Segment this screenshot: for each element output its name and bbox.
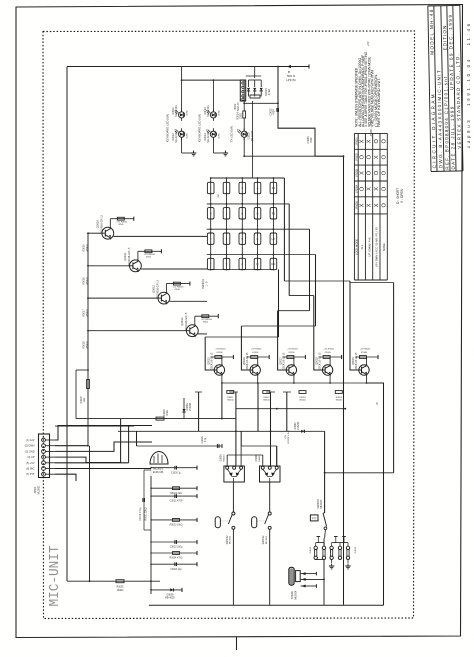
- svg-text:KEYBOARD LED (UR): KEYBOARD LED (UR): [166, 114, 170, 143]
- svg-text:220Ω: 220Ω: [240, 113, 243, 119]
- svg-text:JP3005: JP3005: [355, 201, 358, 210]
- svg-text:RB-402D: RB-402D: [165, 597, 175, 599]
- svg-text:8000Ω: 8000Ω: [263, 400, 270, 402]
- svg-text:R3026: R3026: [117, 587, 124, 589]
- svg-text:D3015: D3015: [248, 132, 251, 140]
- svg-text:EDITION: EDITION: [442, 26, 447, 51]
- svg-text:PTT: PTT: [312, 519, 317, 521]
- svg-text:2SC4116-GR L5: 2SC4116-GR L5: [283, 352, 285, 370]
- svg-text:UP / DWN / ACC / D-NR / P1 / P: UP / DWN / ACC / D-NR / P1 / P2: [375, 226, 379, 267]
- svg-text:C3003: C3003: [307, 136, 310, 144]
- svg-text:(5) +5V: (5) +5V: [26, 462, 35, 465]
- svg-text:SW: SW: [218, 194, 220, 197]
- svg-text:A: A: [257, 186, 259, 190]
- svg-text:(UR): (UR): [218, 110, 220, 115]
- svg-text:Q3011: Q3011: [123, 252, 127, 260]
- svg-text:MU0901: MU0901: [38, 485, 41, 495]
- svg-text:C3019 0.01μ: C3019 0.01μ: [140, 507, 142, 521]
- svg-text:R3023 10kΩ: R3023 10kΩ: [170, 525, 183, 527]
- svg-text:2SC4116-GR L5: 2SC4116-GR L5: [211, 352, 213, 370]
- svg-text:(1) 12V: (1) 12V: [26, 439, 35, 442]
- svg-text:47kΩ: 47kΩ: [146, 257, 152, 259]
- svg-text:470kΩ: 470kΩ: [86, 244, 89, 251]
- svg-text:D3012: D3012: [355, 546, 357, 553]
- svg-text:R3053: R3053: [299, 397, 306, 399]
- svg-text:MU0902: MU0902: [266, 535, 268, 544]
- svg-text:MU0903: MU0903: [321, 499, 323, 508]
- svg-text:X: X: [367, 203, 373, 207]
- svg-text:2SC4116-GR L5: 2SC4116-GR L5: [320, 352, 322, 370]
- svg-text:O: O: [381, 186, 387, 191]
- svg-text:4700Ω: 4700Ω: [325, 352, 332, 354]
- svg-text:4.7μ: 4.7μ: [205, 437, 207, 442]
- svg-text:O: O: [381, 203, 387, 208]
- svg-text:470kΩ: 470kΩ: [86, 341, 89, 348]
- svg-text:O: O: [374, 170, 380, 175]
- svg-text:J3001: J3001: [33, 486, 37, 494]
- svg-text:Q3018: Q3018: [316, 357, 319, 365]
- svg-text:X: X: [360, 203, 366, 207]
- svg-text:4700Ω: 4700Ω: [252, 352, 259, 354]
- svg-text:JP3001 - JP3005: JP3001 - JP3005: [370, 118, 373, 137]
- svg-text:(2) DWN: (2) DWN: [25, 445, 35, 448]
- svg-text:SW3002: SW3002: [227, 535, 229, 545]
- svg-text:4700Ω: 4700Ω: [288, 352, 295, 354]
- svg-text:R3054: R3054: [336, 397, 343, 399]
- svg-text:+5V: +5V: [366, 41, 370, 46]
- svg-text:SW3002: SW3002: [263, 535, 265, 545]
- svg-text:MU0902: MU0902: [230, 535, 232, 544]
- svg-text:JP3003: JP3003: [355, 168, 358, 177]
- svg-text:X: X: [374, 187, 380, 191]
- svg-text:D3010: D3010: [310, 546, 312, 553]
- svg-text:1SS246: 1SS246: [298, 421, 300, 430]
- svg-text:Q3017: Q3017: [279, 357, 282, 365]
- svg-text:MU0904: MU0904: [296, 590, 298, 599]
- svg-text:(UR): (UR): [187, 110, 189, 115]
- svg-text:2SC4116-GR L5: 2SC4116-GR L5: [356, 352, 358, 370]
- svg-text:SP3001: SP3001: [291, 590, 294, 599]
- svg-text:R3020: R3020: [163, 409, 166, 417]
- svg-text:(UR): (UR): [218, 133, 220, 138]
- svg-text:O: O: [381, 154, 387, 159]
- svg-text:4700Ω: 4700Ω: [216, 352, 223, 354]
- svg-text:X: X: [360, 139, 366, 143]
- svg-text:470P: 470P: [273, 109, 276, 115]
- svg-text:100kΩ: 100kΩ: [117, 590, 124, 592]
- svg-text:O: O: [367, 170, 373, 175]
- svg-text:C3021 470P: C3021 470P: [170, 501, 183, 503]
- svg-text:470kΩ: 470kΩ: [86, 309, 89, 316]
- svg-text:SEL2210K: SEL2210K: [207, 131, 210, 143]
- svg-text:2SC4116-GR L5: 2SC4116-GR L5: [247, 352, 249, 370]
- svg-text:P1: P1: [272, 186, 276, 190]
- svg-text:C3022 100μ: C3022 100μ: [170, 547, 183, 549]
- svg-text:X: X: [360, 171, 366, 175]
- svg-text:2SC4116-GR L5: 2SC4116-GR L5: [185, 312, 188, 331]
- svg-text:P2: P2: [272, 212, 276, 216]
- svg-text:R3033 1.7kΩ: R3033 1.7kΩ: [288, 430, 290, 443]
- svg-text:O: O: [367, 154, 373, 159]
- svg-text:X: X: [367, 187, 373, 191]
- svg-text:ECM (UR): ECM (UR): [153, 472, 164, 474]
- svg-text:TX LED (UR): TX LED (UR): [229, 126, 233, 143]
- svg-text:+5V R3044: +5V R3044: [323, 349, 334, 351]
- svg-text:Q3010: Q3010: [95, 220, 99, 229]
- svg-text:(4) UP: (4) UP: [27, 456, 35, 459]
- svg-text:470P: 470P: [311, 137, 313, 143]
- svg-text:(UR): (UR): [187, 133, 189, 138]
- svg-text:C3024 10μ: C3024 10μ: [170, 569, 182, 571]
- svg-text:C3020 1μ: C3020 1μ: [171, 472, 182, 474]
- svg-text:+5V R3045: +5V R3045: [360, 349, 371, 351]
- svg-text:SW3001: SW3001: [201, 278, 205, 289]
- svg-text:(7) PTT: (7) PTT: [26, 473, 35, 476]
- svg-text:1 - 9: 1 - 9: [206, 281, 209, 286]
- svg-text:SW3003: SW3003: [317, 499, 320, 509]
- svg-text:(6) MIC: (6) MIC: [26, 468, 35, 471]
- svg-text:KEYBOARD LED (UR): KEYBOARD LED (UR): [197, 114, 201, 143]
- svg-text:MIC-UNIT: MIC-UNIT: [48, 546, 63, 607]
- svg-text:47kΩ: 47kΩ: [174, 289, 180, 291]
- svg-text:UP: UP: [272, 237, 276, 241]
- svg-text:470kΩ: 470kΩ: [86, 277, 89, 284]
- svg-text:1SS246: 1SS246: [190, 402, 192, 411]
- svg-text:NONE: NONE: [382, 243, 386, 251]
- svg-text:2SC4116-GR L5: 2SC4116-GR L5: [100, 214, 103, 233]
- svg-text:X: X: [367, 139, 373, 143]
- svg-text:LPF(S): LPF(S): [286, 78, 296, 82]
- svg-text:+5V R3043: +5V R3043: [287, 349, 298, 351]
- svg-text:R3024 470Ω: R3024 470Ω: [170, 558, 183, 560]
- svg-text:Q3016: Q3016: [243, 357, 246, 365]
- svg-text:47kΩ: 47kΩ: [203, 322, 209, 324]
- svg-text:ALL: ALL: [360, 244, 364, 249]
- svg-text:D3004: D3004: [294, 422, 297, 430]
- svg-text:MA133: MA133: [222, 454, 225, 462]
- svg-text:SEL2210K: SEL2210K: [252, 130, 254, 141]
- svg-text:JP3002: JP3002: [355, 152, 358, 161]
- svg-text:D3005: D3005: [219, 454, 222, 462]
- svg-text:B: B: [257, 212, 259, 216]
- svg-text:D3008: D3008: [167, 594, 174, 596]
- svg-text:(3) GND: (3) GND: [25, 450, 35, 453]
- svg-text:O: O: [360, 186, 366, 191]
- svg-text:R3019: R3019: [80, 396, 83, 404]
- svg-text:*: *: [210, 262, 211, 266]
- svg-text:SEL2210K: SEL2210K: [175, 131, 178, 143]
- svg-text:8000Ω: 8000Ω: [227, 400, 234, 402]
- svg-text:X: X: [374, 203, 380, 207]
- svg-text:C: C: [257, 237, 259, 241]
- svg-text:2SC4116-GR L5: 2SC4116-GR L5: [128, 247, 131, 266]
- svg-text:D3003: D3003: [186, 403, 189, 411]
- svg-text:47kΩ: 47kΩ: [167, 410, 169, 416]
- svg-text:Q3012: Q3012: [151, 285, 155, 294]
- svg-text:Q3013: Q3013: [180, 317, 184, 326]
- svg-text:MODEL MH-48: MODEL MH-48: [429, 9, 435, 55]
- svg-text:SEL2210K: SEL2210K: [175, 105, 178, 117]
- svg-text:Q3015: Q3015: [207, 357, 210, 365]
- svg-text:47kΩ: 47kΩ: [118, 224, 124, 226]
- svg-text:+5V: +5V: [285, 434, 287, 438]
- svg-text:R3051: R3051: [227, 397, 234, 399]
- svg-text:R3021 22kΩ: R3021 22kΩ: [146, 507, 148, 520]
- svg-text:O: O: [374, 139, 380, 144]
- svg-text:8000Ω: 8000Ω: [299, 400, 306, 402]
- svg-text:O: O: [360, 154, 366, 159]
- svg-text:UP / DWN / 4+6: UP / DWN / 4+6: [367, 237, 371, 257]
- svg-text:O: O: [381, 170, 387, 175]
- svg-text:D: D: [257, 262, 259, 266]
- svg-text:8000Ω: 8000Ω: [336, 400, 343, 402]
- svg-text:LOCK MODE: LOCK MODE: [354, 239, 358, 255]
- svg-text:X: X: [374, 155, 380, 159]
- svg-text:DN: DN: [271, 262, 275, 266]
- svg-text:PART OF KEYBOARD UNIT.: PART OF KEYBOARD UNIT.: [377, 78, 381, 127]
- svg-text:X : OPEN: X : OPEN: [400, 188, 404, 203]
- svg-text:+B: +B: [376, 402, 379, 405]
- svg-text:JP3001: JP3001: [355, 137, 358, 146]
- svg-text:2SC4116-GR L5: 2SC4116-GR L5: [156, 279, 159, 298]
- svg-text:47kΩ: 47kΩ: [267, 89, 271, 95]
- svg-text:TMM-7P: TMM-7P: [237, 102, 240, 112]
- svg-text:1kΩ: 1kΩ: [84, 398, 86, 402]
- svg-text:R3052: R3052: [263, 397, 270, 399]
- svg-text:C3016: C3016: [201, 436, 204, 444]
- svg-text:SEL2210K: SEL2210K: [207, 105, 210, 117]
- svg-text:O: O: [381, 139, 387, 144]
- svg-text:4700Ω: 4700Ω: [361, 352, 368, 354]
- svg-text:JP3004: JP3004: [355, 184, 358, 193]
- svg-text:+5V R3042: +5V R3042: [251, 349, 262, 351]
- svg-text:+5V R3041: +5V R3041: [215, 349, 226, 351]
- svg-text:Q3019: Q3019: [352, 357, 355, 365]
